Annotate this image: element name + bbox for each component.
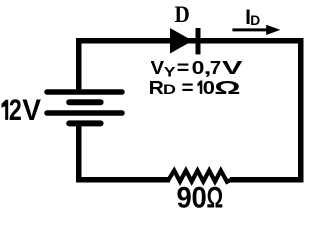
svg-text:=: = [177,57,190,79]
svg-text:D: D [163,82,176,98]
svg-text:Ω: Ω [214,77,240,98]
svg-text:7: 7 [210,58,221,79]
svg-text:Y: Y [164,65,176,80]
svg-text:V: V [151,58,165,79]
svg-text:9: 9 [177,182,192,213]
svg-text:D: D [250,13,260,28]
svg-text:D: D [175,1,190,27]
svg-text:0: 0 [203,78,215,98]
svg-text:V: V [22,94,41,127]
svg-text:Ω: Ω [207,182,224,213]
svg-text:=: = [181,77,193,98]
svg-text:0: 0 [191,182,206,213]
svg-text:V: V [222,58,242,79]
svg-text:0: 0 [192,58,205,79]
svg-text:2: 2 [9,93,22,126]
